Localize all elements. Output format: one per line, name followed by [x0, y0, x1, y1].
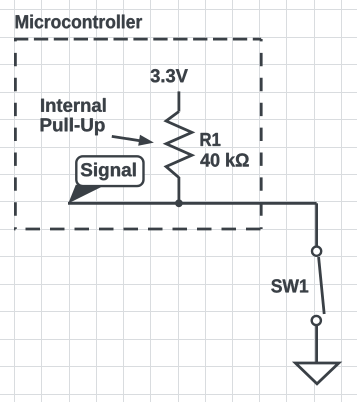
label Microcontroller [16, 15, 142, 29]
label 3.3V supply [151, 69, 188, 82]
switch SW1 [312, 247, 325, 326]
junction dot [175, 199, 183, 207]
value 40 kΩ [200, 153, 248, 167]
label R1 [201, 133, 221, 146]
wire junction to switch SW1 [315, 203, 318, 246]
microcontroller boundary box [14, 39, 263, 229]
wire switch to ground [315, 325, 318, 362]
wire signal net horizontal [68, 202, 317, 205]
ground [295, 363, 338, 384]
annotation Internal Pull-Up [41, 98, 106, 135]
annotation arrow to R1 [112, 135, 154, 146]
wire 3.3V to resistor top [177, 91, 180, 111]
label SW1 [271, 279, 308, 292]
resistor R1 [166, 112, 192, 178]
node Signal callout [68, 156, 143, 203]
wire resistor bottom to junction [177, 177, 180, 203]
